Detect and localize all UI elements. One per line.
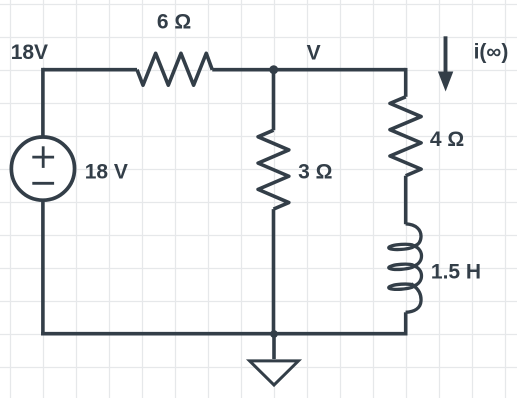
svg-text:i(∞): i(∞) — [474, 40, 509, 63]
svg-text:18 V: 18 V — [85, 160, 128, 183]
svg-text:4 Ω: 4 Ω — [430, 128, 464, 151]
svg-text:V: V — [307, 41, 321, 64]
svg-text:1.5 H: 1.5 H — [431, 260, 481, 283]
svg-text:18V: 18V — [11, 41, 48, 64]
svg-text:6 Ω: 6 Ω — [157, 11, 191, 34]
svg-text:3 Ω: 3 Ω — [298, 160, 332, 183]
